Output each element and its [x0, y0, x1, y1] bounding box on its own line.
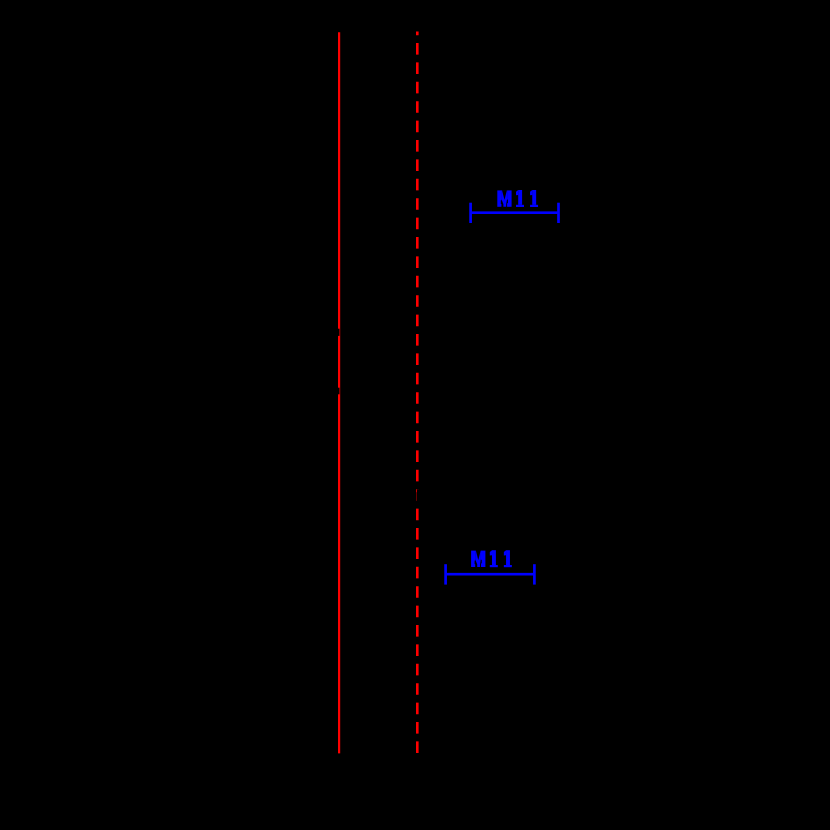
trace occlusion nick 2 on solid line — [337, 388, 339, 395]
M11 label 1 (drawn glyphs) — [497, 190, 538, 207]
M11 bracket 2 left cap — [444, 564, 447, 584]
M11 bracket 1 bar — [471, 211, 559, 214]
trace occlusion nick 1 on solid line — [337, 329, 339, 336]
dashed red pick line — [416, 32, 419, 754]
M11 bracket 2 bar — [446, 573, 535, 576]
trace occlusion on dashed line — [417, 489, 420, 502]
M11 bracket 1 left cap — [469, 203, 472, 223]
M11 label 2 (drawn glyphs, reused) — [471, 550, 512, 567]
M11 bracket 1 right cap — [557, 203, 560, 223]
solid red pick line — [338, 32, 340, 753]
M11 bracket 2 right cap — [533, 564, 536, 584]
